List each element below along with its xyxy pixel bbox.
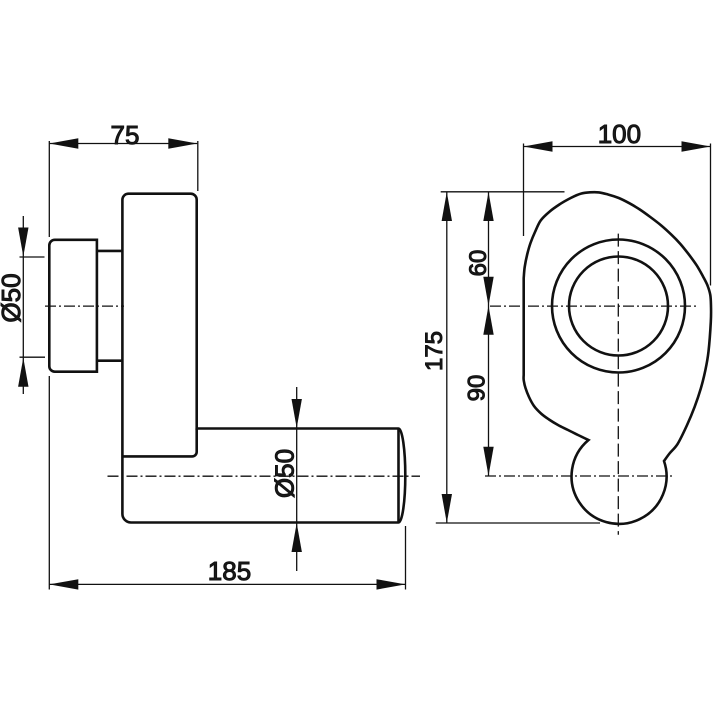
svg-text:175: 175 — [421, 331, 448, 371]
inlet socket — [49, 240, 97, 372]
flange outline with outlet bump — [524, 192, 712, 524]
socket neck top line — [97, 250, 123, 253]
dim O50 mid arrow up — [292, 523, 302, 552]
dim 100 ext line left — [523, 144, 525, 237]
dim 60/90 line — [488, 192, 490, 476]
dim O50 mid arrow down — [292, 399, 302, 428]
svg-text:100: 100 — [598, 119, 641, 149]
dim 100 line — [524, 146, 711, 148]
dim O50 left arrow up — [18, 358, 28, 387]
dim 100 ext line right — [710, 144, 712, 286]
svg-text:60: 60 — [465, 250, 492, 277]
dim 100 arrow right — [682, 141, 711, 151]
svg-text:75: 75 — [111, 120, 140, 150]
dim 175 line — [446, 192, 448, 523]
dim 185 arrow right — [377, 579, 406, 589]
dim 175 arrow up — [442, 192, 452, 221]
svg-text:90: 90 — [464, 375, 491, 402]
svg-text:185: 185 — [208, 556, 251, 586]
outer circle — [552, 240, 685, 373]
socket centerline — [45, 305, 124, 307]
dim 60 arrow down — [483, 277, 493, 306]
dim 185 arrow left — [49, 579, 78, 589]
dim 185 line — [49, 583, 405, 585]
pipe centerline — [108, 475, 421, 477]
dim 75 line — [49, 143, 197, 145]
bottom ext line — [436, 522, 600, 524]
dim 90 arrow up — [483, 306, 493, 335]
dim O50 left tick bottom — [20, 356, 46, 358]
dim 75 ext line right — [197, 141, 199, 191]
dim 90 arrow down — [483, 447, 493, 476]
dim O50 left tick top — [20, 256, 45, 258]
dim 175 arrow down — [442, 494, 452, 523]
dim 75 arrow left — [49, 138, 78, 148]
big circle horizontal centerline — [490, 305, 697, 307]
dim 75 ext line left — [48, 141, 50, 237]
top ext line — [441, 191, 565, 193]
small circle horizontal centerline — [485, 475, 675, 477]
dim O50 left line — [22, 216, 24, 394]
dim 60 arrow up — [483, 192, 493, 221]
body+pipe L-outline — [122, 194, 405, 523]
dim 100 arrow left — [524, 141, 553, 151]
body bottom internal edge — [122, 429, 196, 457]
socket neck bottom line — [97, 359, 123, 362]
dim 185 ext line right — [405, 526, 407, 590]
vertical centerline — [617, 234, 619, 535]
svg-text:Ø50: Ø50 — [0, 273, 26, 322]
dim 75 arrow right — [168, 138, 197, 148]
pipe end inner line — [397, 430, 400, 522]
inner circle — [569, 257, 668, 356]
dim O50 left arrow down — [18, 228, 28, 257]
dim 185 ext line left — [48, 376, 50, 590]
svg-text:Ø50: Ø50 — [269, 449, 299, 498]
dim O50 mid line — [296, 387, 298, 571]
